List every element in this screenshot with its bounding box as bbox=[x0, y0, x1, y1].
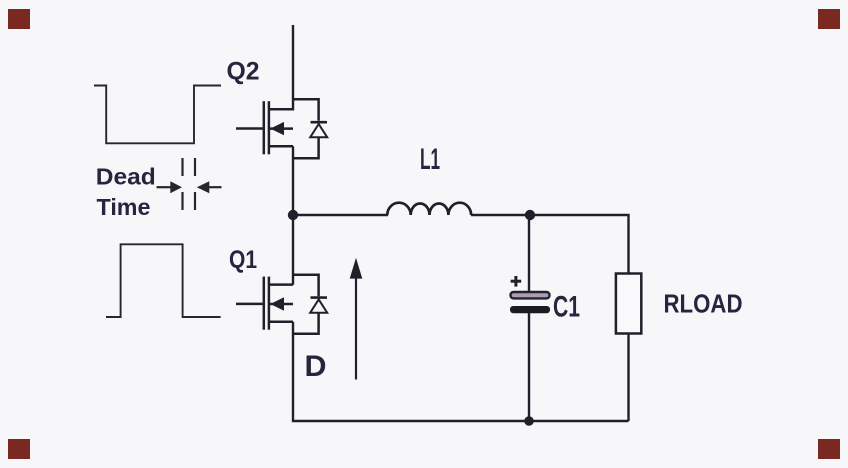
svg-text:C1: C1 bbox=[553, 291, 580, 324]
svg-text:D: D bbox=[305, 350, 327, 383]
svg-text:Q1: Q1 bbox=[229, 246, 257, 274]
svg-text:Dead: Dead bbox=[96, 164, 156, 190]
svg-text:Time: Time bbox=[97, 194, 151, 220]
svg-text:L1: L1 bbox=[420, 143, 440, 176]
svg-text:Q2: Q2 bbox=[227, 58, 260, 86]
svg-text:RLOAD: RLOAD bbox=[664, 291, 743, 319]
